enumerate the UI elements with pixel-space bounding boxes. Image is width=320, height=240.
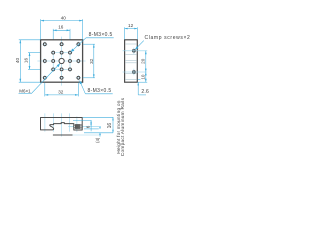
profile extension lines right (73, 117, 113, 133)
profile clamp screw section (74, 125, 80, 129)
svg-text:40: 40 (61, 16, 67, 21)
centerline vertical plan view (61, 37, 63, 86)
svg-text:32: 32 (89, 58, 94, 64)
dimension 16 top (53, 25, 70, 32)
side view body (125, 40, 138, 82)
dimension 10 side view (141, 72, 147, 82)
svg-text:M6×1: M6×1 (19, 88, 31, 93)
svg-text:10: 10 (141, 74, 146, 80)
svg-text:6: 6 (86, 125, 91, 128)
centerline inner column left (52, 50, 54, 72)
svg-text:12: 12 (128, 23, 134, 28)
svg-text:Clamp screws×2: Clamp screws×2 (145, 35, 191, 41)
dimension 16 profile (107, 117, 114, 133)
cross ticks outer holes (42, 42, 81, 81)
dimension 12 side view (125, 23, 138, 29)
centerline inner column right (69, 50, 71, 72)
clamp screw lower (132, 70, 135, 73)
plate outline plan view (41, 40, 83, 82)
dimension (4) profile (95, 126, 101, 143)
profile outline (41, 118, 83, 131)
svg-text:32: 32 (58, 90, 64, 95)
label 8-M3x0.5 top right with leader (71, 32, 114, 52)
clamp screw centerline upper (123, 50, 148, 52)
svg-text:16: 16 (58, 25, 64, 30)
note height for mounting (116, 97, 126, 156)
datum extension blue (73, 134, 102, 136)
svg-text:8-M3×0.5: 8-M3×0.5 (89, 32, 113, 38)
extension lines dim 40 left (19, 39, 40, 41)
svg-text:2.6: 2.6 (141, 89, 149, 95)
dimension 32 right (89, 44, 95, 78)
extension lines dim 32 right (83, 43, 95, 45)
extension lines dim 12 (124, 27, 126, 39)
profile view centerlines (45, 113, 77, 136)
dimension 2.6 side view (137, 79, 149, 95)
svg-text:20: 20 (141, 58, 146, 64)
extension lines dim 32 bottom (44, 83, 46, 97)
svg-text:8-M3×0.5: 8-M3×0.5 (88, 88, 112, 94)
svg-text:Compact Aluminum Rails: Compact Aluminum Rails (120, 97, 126, 156)
extension line bottom edge side view (138, 81, 147, 83)
datum line rail surface (53, 134, 73, 136)
label M6x1 bottom left with leader (19, 64, 60, 94)
svg-text:(4): (4) (95, 137, 100, 143)
centerline inner row bottom (51, 68, 73, 70)
dimension 40 top (41, 16, 83, 22)
centerline inner row top (51, 52, 73, 54)
extension lines dim 40 top (40, 19, 42, 39)
M3 holes inner ring (52, 51, 72, 71)
label 8-M3x0.5 bottom right with leader (80, 81, 113, 95)
clamp screw upper (132, 49, 135, 52)
side view internal lines (125, 44, 137, 79)
svg-text:16: 16 (24, 58, 29, 64)
dimension 40 left (15, 40, 21, 82)
profile screw knob (80, 125, 82, 128)
M3 holes outer ring (43, 43, 80, 80)
svg-text:40: 40 (15, 58, 20, 64)
label Clamp screws x2 with leader (135, 35, 190, 50)
dimension 20 side view (141, 51, 147, 72)
dimension 32 bottom (45, 90, 79, 96)
M6 center hole (59, 58, 64, 63)
dimension 16 left (24, 53, 31, 70)
svg-text:16: 16 (107, 123, 113, 129)
profile screw centerline (68, 125, 99, 127)
clamp screw centerline lower (123, 71, 148, 73)
centerline horizontal plan view (37, 60, 85, 62)
dimension 6 profile (86, 120, 92, 131)
